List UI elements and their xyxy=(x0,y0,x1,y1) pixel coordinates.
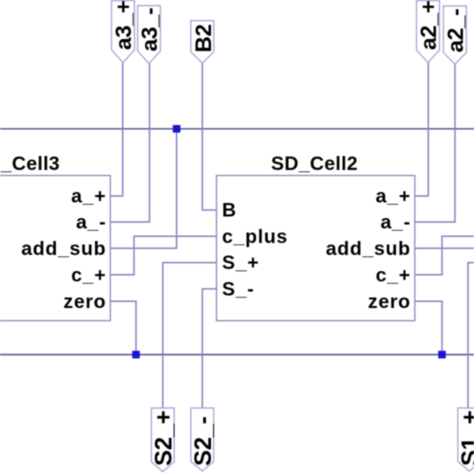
svg-text:a_-: a_- xyxy=(76,212,106,234)
wire bottom bus xyxy=(0,354,474,356)
wire add_sub of SD_Cell2 to right edge xyxy=(415,247,474,249)
port S2_+ xyxy=(151,408,178,472)
wire a3_+ to a_+ of SD_Cell3 xyxy=(110,63,122,197)
svg-text:a3_+: a3_+ xyxy=(111,0,136,50)
svg-text:SD_Cell2: SD_Cell2 xyxy=(271,153,358,175)
block SD_Cell3 xyxy=(0,153,110,321)
svg-text:S2_-: S2_- xyxy=(190,416,217,466)
port a3_+ xyxy=(111,0,136,62)
svg-text:a2_-: a2_- xyxy=(443,9,468,53)
svg-text:add_sub: add_sub xyxy=(326,238,411,260)
svg-text:a_+: a_+ xyxy=(376,186,411,208)
svg-text:B: B xyxy=(222,200,237,222)
junction on top bus at add_sub riser xyxy=(173,125,181,133)
port a3_- xyxy=(137,6,162,64)
port B2 xyxy=(191,21,216,63)
svg-text:c_+: c_+ xyxy=(376,264,411,286)
wire S_- of SD_Cell2 to S2_- xyxy=(202,289,216,408)
wire zero of SD_Cell3 to bottom bus xyxy=(110,301,136,354)
svg-text:S2_+: S2_+ xyxy=(151,410,178,466)
wire a_- of SD_Cell2 to a2_- xyxy=(415,64,455,222)
svg-text:a_+: a_+ xyxy=(71,186,106,208)
svg-text:a2_+: a2_+ xyxy=(416,0,441,50)
svg-text:zero: zero xyxy=(63,291,106,313)
svg-text:B2: B2 xyxy=(191,24,216,52)
port S1_+ xyxy=(457,408,474,471)
svg-text:add_sub: add_sub xyxy=(21,238,106,260)
wire top bus xyxy=(0,128,474,130)
block SD_Cell2 xyxy=(217,153,415,321)
svg-text:SD_Cell3: SD_Cell3 xyxy=(0,153,60,175)
port S2_- xyxy=(190,408,217,471)
wire zero of SD_Cell2 to bottom bus xyxy=(415,301,442,354)
svg-text:a_-: a_- xyxy=(381,212,411,234)
wire c_+ of SD_Cell2 to right edge xyxy=(415,236,474,274)
svg-text:S_+: S_+ xyxy=(222,252,259,274)
junction on bottom bus at zero of SD_Cell2 xyxy=(438,351,446,359)
wire add_sub of SD_Cell3 to top bus xyxy=(110,129,176,249)
junction on bottom bus at zero of SD_Cell3 xyxy=(132,351,140,359)
svg-text:S_-: S_- xyxy=(222,279,254,301)
svg-text:a3_-: a3_- xyxy=(137,8,162,52)
svg-text:c_+: c_+ xyxy=(71,264,106,286)
wire B2 to B of SD_Cell2 xyxy=(202,63,216,210)
svg-text:zero: zero xyxy=(368,291,411,313)
svg-text:c_plus: c_plus xyxy=(222,226,288,248)
svg-text:S1_+: S1_+ xyxy=(457,410,474,466)
port a2_- xyxy=(443,6,468,64)
wire a3_- to a_- of SD_Cell3 xyxy=(110,64,149,223)
wire S_+ of cell1 to S1_+ xyxy=(468,263,474,408)
port a2_+ xyxy=(416,0,441,62)
wire c_+ of SD_Cell3 to c_plus of SD_Cell2 xyxy=(110,236,216,274)
wire a_+ of SD_Cell2 to a2_+ xyxy=(415,63,429,197)
wire S_+ of SD_Cell2 to S2_+ xyxy=(163,263,217,408)
